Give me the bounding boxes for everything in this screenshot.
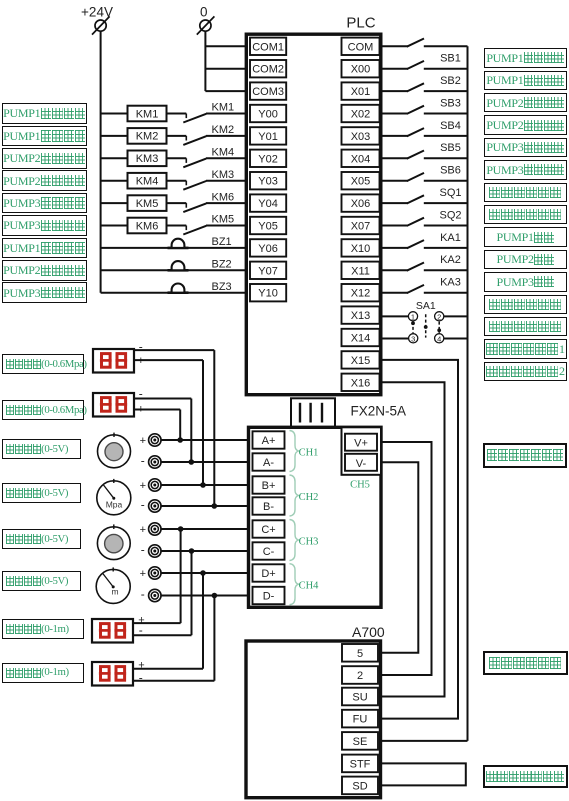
svg-text:0: 0 — [200, 5, 208, 20]
wire contact to bus — [424, 292, 468, 294]
FX2N terminal V- — [345, 454, 377, 471]
input contact row X02 — [407, 106, 424, 114]
junction C+ — [178, 526, 184, 532]
wire contact to bus — [424, 113, 468, 115]
svg-text:KM2: KM2 — [212, 124, 235, 136]
svg-text:Y04: Y04 — [258, 198, 278, 210]
svg-text:3: 3 — [411, 334, 415, 343]
contact label SB6 — [440, 165, 461, 177]
digital display pressure display 1 — [93, 349, 134, 373]
label 反馈压力(0-5V) — [2, 483, 81, 503]
svg-text:+: + — [140, 435, 146, 447]
svg-text:BZ3: BZ3 — [212, 281, 232, 293]
svg-text:+: + — [140, 568, 146, 580]
wire FX2N V+ to A700 terminal 2 — [381, 442, 432, 675]
PLC terminal X10 — [342, 239, 380, 256]
svg-text:BZ2: BZ2 — [212, 259, 232, 271]
svg-text:KM6: KM6 — [212, 191, 235, 203]
svg-text:V+: V+ — [354, 438, 368, 450]
terminal jack B- — [141, 498, 161, 513]
wire contact to PLC Y04 — [206, 202, 248, 204]
wire STF-SD start loop — [381, 763, 466, 785]
PLC terminal X13 — [342, 306, 380, 323]
svg-text:X04: X04 — [351, 153, 371, 165]
label 自动运行模式 — [484, 317, 568, 337]
SA1 pin 1 — [408, 312, 417, 322]
wire jack to FX2N B- — [161, 505, 248, 507]
PLC terminal COM1 — [250, 38, 286, 55]
label PUMP1工频运行 — [2, 103, 87, 124]
svg-text:A-: A- — [263, 457, 274, 469]
input contact row X07 — [407, 218, 424, 226]
wire coil KM3 to contact — [167, 158, 187, 163]
PLC terminal X02 — [342, 105, 380, 122]
svg-text:KA2: KA2 — [440, 254, 461, 266]
contact label SB5 — [440, 142, 461, 154]
svg-text:CH2: CH2 — [299, 492, 319, 503]
svg-text:SB1: SB1 — [440, 53, 461, 65]
FX2N terminal B- — [253, 497, 285, 514]
wire jack to FX2N D- — [161, 595, 248, 597]
input contact row X06 — [407, 195, 424, 203]
SA1 linkage middle — [424, 314, 428, 337]
svg-text:STF: STF — [350, 758, 371, 770]
input contact row X00 — [407, 61, 424, 69]
label 频率到达信号1 — [484, 339, 568, 359]
svg-text:X11: X11 — [351, 265, 370, 277]
svg-text:PLC: PLC — [346, 15, 375, 32]
label PUMP2故障 — [484, 250, 568, 270]
svg-text:CH3: CH3 — [299, 537, 319, 548]
junction A- — [189, 459, 195, 465]
A700 terminal SD — [342, 777, 378, 795]
PLC terminal Y05 — [250, 217, 286, 234]
terminal jack C- — [141, 543, 161, 558]
wire contact to bus — [424, 135, 468, 137]
wire jack to FX2N C- — [161, 550, 248, 552]
wire PLC X01 to contact — [381, 90, 408, 92]
svg-text:Y00: Y00 — [258, 109, 278, 121]
contact KM3 — [183, 169, 234, 190]
PLC terminal Y01 — [250, 127, 286, 144]
wire contact to bus — [424, 225, 468, 227]
contact label SQ1 — [439, 187, 461, 199]
wire contact to bus — [424, 247, 468, 249]
svg-text:X13: X13 — [351, 310, 371, 322]
svg-text:KM1: KM1 — [212, 102, 235, 114]
svg-text:X10: X10 — [351, 243, 371, 255]
svg-text:Y05: Y05 — [258, 221, 278, 233]
wire contact to PLC Y01 — [206, 135, 248, 137]
contact KM4 — [183, 147, 234, 168]
wire 0V to COM1 — [205, 45, 247, 47]
channel brace CH3 — [290, 520, 299, 561]
wire contact to PLC Y00 — [206, 113, 248, 115]
svg-text:-: - — [141, 543, 145, 557]
PLC terminal Y04 — [250, 194, 286, 211]
svg-text:SU: SU — [352, 692, 367, 704]
input contact row X12 — [407, 285, 424, 293]
svg-text:-: - — [141, 454, 145, 468]
wire 0V to COM3 — [205, 90, 247, 92]
wire +24V rail to PLC Y06 — [101, 247, 248, 249]
wire coil KM5 to contact — [167, 203, 187, 208]
contact label SQ2 — [439, 209, 461, 221]
A700 terminal SU — [342, 688, 378, 706]
wire PLC X03 to contact — [381, 135, 408, 137]
wire SA1 pin 4 to bus — [444, 338, 468, 340]
wire PLC X10 to contact — [381, 247, 408, 249]
PLC terminal Y02 — [250, 150, 286, 167]
wire FX2N V- to A700 terminal 5 — [381, 462, 419, 653]
A700 terminal FU — [342, 710, 378, 728]
svg-text:X07: X07 — [351, 221, 371, 233]
A700 terminal 2 — [342, 666, 378, 684]
wire contact to bus — [424, 202, 468, 204]
svg-text:BZ1: BZ1 — [212, 236, 232, 248]
wire contact to bus — [424, 90, 468, 92]
svg-text:Mpa: Mpa — [106, 500, 123, 510]
label 频率到达信号2 — [484, 362, 568, 382]
svg-text:SQ2: SQ2 — [439, 209, 461, 221]
contact label KA2 — [440, 254, 461, 266]
junction B+ — [200, 482, 206, 488]
SA1 pin 2 — [435, 312, 444, 322]
svg-text:Y03: Y03 — [258, 176, 278, 188]
A700 terminal 5 — [342, 644, 378, 662]
wire PLC X07 to contact — [381, 225, 408, 227]
wire +24V rail to coil KM3 — [101, 157, 128, 159]
label PUMP1故障报警 — [2, 238, 87, 259]
svg-text:5: 5 — [357, 648, 363, 660]
svg-text:CH5: CH5 — [350, 480, 370, 491]
label 手动运行模式 — [484, 295, 568, 315]
svg-text:C+: C+ — [261, 524, 275, 536]
channel label CH4 — [299, 581, 320, 592]
svg-text:SE: SE — [353, 736, 368, 748]
relay coil KM1 — [128, 106, 167, 122]
svg-text:SA1: SA1 — [416, 300, 436, 312]
FX2N terminal B+ — [253, 476, 285, 493]
contact KM6 — [183, 191, 234, 212]
svg-text:KM2: KM2 — [136, 131, 159, 143]
contact label SB3 — [440, 97, 461, 109]
PLC terminal X12 — [342, 284, 380, 301]
power terminal +24V — [92, 16, 110, 34]
SA1 linkage 1-3 — [411, 321, 415, 333]
svg-text:X00: X00 — [351, 64, 371, 76]
svg-text:FU: FU — [353, 714, 368, 726]
wire +24V rail to coil KM1 — [101, 113, 128, 115]
junction B- — [212, 503, 218, 509]
relay coil KM3 — [128, 151, 167, 167]
PLC terminal COM — [342, 38, 380, 55]
svg-text:D+: D+ — [261, 568, 275, 580]
PLC terminal X04 — [342, 150, 380, 167]
svg-text:KM3: KM3 — [212, 169, 235, 181]
pressure display 1 minus wire to B- — [134, 340, 214, 507]
terminal jack D- — [141, 587, 161, 602]
svg-text:Y01: Y01 — [258, 131, 278, 143]
svg-text:CH4: CH4 — [299, 581, 320, 592]
wire +24V rail to coil KM2 — [101, 135, 128, 137]
label PUMP3停止按钮 — [484, 160, 568, 180]
FX2N terminal A+ — [253, 431, 285, 448]
label PUMP3故障报警 — [2, 282, 87, 303]
svg-text:COM3: COM3 — [252, 86, 284, 98]
wire jack to FX2N C+ — [161, 528, 248, 530]
wire PLC X00 to contact — [381, 68, 408, 70]
label PUMP1启动按钮 — [484, 48, 568, 68]
svg-text:SB2: SB2 — [440, 75, 461, 87]
svg-text:D-: D- — [263, 591, 275, 603]
wire PLC X02 to contact — [381, 113, 408, 115]
svg-text:COM: COM — [348, 41, 374, 53]
wire coil KM1 to contact — [167, 114, 187, 119]
svg-text:X05: X05 — [351, 176, 371, 188]
PLC terminal X01 — [342, 82, 380, 99]
svg-text:+: + — [140, 480, 146, 492]
wire jack to FX2N B+ — [161, 484, 248, 486]
svg-text:B-: B- — [263, 501, 274, 513]
digital display pressure display 2 — [93, 393, 134, 417]
inverter A700 — [246, 624, 385, 798]
wire SA1 pin 2 to bus — [444, 315, 468, 317]
node +24V — [81, 5, 113, 20]
svg-text:X06: X06 — [351, 198, 371, 210]
contact KM2 — [183, 124, 234, 145]
contact label KA1 — [440, 232, 461, 244]
wire jack to FX2N A+ — [161, 439, 248, 441]
wire +24V rail to PLC Y07 — [101, 269, 248, 271]
FX2N terminal V+ — [345, 434, 377, 451]
channel label CH5 — [350, 480, 370, 491]
FX2N terminal C+ — [253, 520, 285, 537]
SA1 linkage 2-4 — [437, 322, 441, 334]
contact label SB2 — [440, 75, 461, 87]
svg-text:KM6: KM6 — [136, 220, 159, 232]
PLC terminal Y10 — [250, 284, 286, 301]
contact label SB4 — [440, 120, 461, 132]
input contact row X05 — [407, 173, 424, 181]
wire PLC X05 to contact — [381, 180, 408, 182]
label PUMP2停止按钮 — [484, 115, 568, 135]
svg-text:Y02: Y02 — [258, 153, 278, 165]
svg-text:X03: X03 — [351, 131, 371, 143]
channel brace CH4 — [290, 564, 299, 605]
label PUMP2故障报警 — [2, 260, 87, 281]
label PUMP3工频运行 — [2, 193, 87, 214]
PLC terminal X14 — [342, 329, 380, 346]
wire +24V rail to coil KM4 — [101, 180, 128, 182]
contact KM1 — [183, 102, 234, 123]
svg-text:KM3: KM3 — [136, 153, 159, 165]
power terminal 0 — [197, 16, 215, 34]
wire +24V rail to PLC Y10 — [101, 292, 248, 294]
svg-text:KM5: KM5 — [136, 198, 159, 210]
svg-text:CH1: CH1 — [299, 448, 319, 459]
contact KM5 — [183, 214, 234, 235]
contact label KA3 — [440, 277, 461, 289]
svg-text:KM4: KM4 — [212, 147, 235, 159]
svg-text:SD: SD — [352, 780, 367, 792]
wire jack to FX2N D+ — [161, 572, 248, 574]
wire bus to A700 SE — [381, 740, 468, 742]
channel label CH2 — [299, 492, 319, 503]
label 集水池高液位 — [484, 183, 568, 203]
wire contact to bus — [424, 157, 468, 159]
terminal jack A- — [141, 454, 161, 469]
PLC terminal X11 — [342, 262, 380, 279]
svg-text:X15: X15 — [351, 355, 371, 367]
PLC terminal X15 — [342, 351, 380, 368]
PLC terminal COM2 — [250, 60, 286, 77]
label 压力显示(0-0.6Mpa) — [2, 400, 84, 420]
wire 0V rail — [204, 31, 206, 91]
label PUMP3变频运行 — [2, 215, 87, 236]
wire contact to bus — [424, 269, 468, 271]
svg-text:C-: C- — [263, 546, 275, 558]
PLC terminal X03 — [342, 127, 380, 144]
svg-text:A700: A700 — [352, 624, 385, 640]
level display 1 minus wire to C- — [133, 551, 192, 637]
pressure display 2 plus wire to A+ — [134, 404, 180, 441]
svg-text:COM2: COM2 — [252, 64, 284, 76]
selector switch SA1 — [416, 300, 436, 312]
contact label SB1 — [440, 53, 461, 65]
svg-text:KM1: KM1 — [136, 108, 159, 120]
wire contact to PLC Y02 — [206, 157, 248, 159]
level display 2 minus wire to D- — [133, 596, 214, 685]
wire PLC X14 to SA1 pin 3 — [381, 338, 409, 340]
svg-text:4: 4 — [437, 334, 441, 343]
terminal jack B+ — [140, 479, 161, 492]
A700 terminal SE — [342, 732, 378, 750]
junction C- — [189, 548, 195, 554]
PLC main unit — [246, 15, 380, 395]
label 设定压力(0-5V) — [2, 439, 81, 459]
wire PLC X12 to contact — [381, 292, 408, 294]
wire contact to bus — [424, 45, 468, 47]
potentiometer set level — [97, 524, 130, 559]
input contact row X01 — [407, 83, 424, 91]
svg-text:2: 2 — [357, 670, 363, 682]
label PUMP3故障 — [484, 272, 568, 292]
digital display level display 1 — [92, 619, 133, 643]
label 液位显示(0-1m) — [2, 663, 84, 683]
wire +24V rail — [100, 31, 102, 293]
terminal jack A+ — [140, 434, 161, 447]
svg-text:SB3: SB3 — [440, 97, 461, 109]
input contact row X11 — [407, 263, 424, 271]
svg-text:KM4: KM4 — [136, 176, 159, 188]
node 0 — [200, 5, 208, 20]
channel label CH3 — [299, 537, 319, 548]
label PUMP2变频运行 — [2, 170, 87, 191]
wire contact to PLC Y05 — [206, 225, 248, 227]
input contact row X03 — [407, 128, 424, 136]
svg-text:-: - — [141, 587, 145, 601]
svg-text:V-: V- — [356, 458, 367, 470]
relay coil KM2 — [128, 128, 167, 144]
wire PLC X15 to A700 FU — [381, 360, 458, 719]
junction A+ — [177, 437, 183, 443]
label 液位显示(0-1m) — [2, 619, 84, 639]
PLC terminal X00 — [342, 60, 380, 77]
svg-text:m: m — [111, 587, 118, 597]
PLC terminal Y06 — [250, 239, 286, 256]
input contact row X10 — [407, 240, 424, 248]
wire +24V rail to coil KM6 — [101, 225, 128, 227]
channel brace CH2 — [290, 475, 299, 516]
channel brace CH1 — [290, 431, 299, 472]
label 变频器启动信号 — [483, 765, 569, 789]
input contact row COM — [407, 39, 424, 47]
pressure display 1 plus wire to B+ — [134, 355, 203, 485]
wire PLC X04 to contact — [381, 157, 408, 159]
extension bus connector — [291, 398, 335, 427]
wire PLC X13 to SA1 pin 1 — [381, 315, 408, 317]
label 模拟量输出信号 — [483, 443, 567, 468]
wire contact to bus — [424, 68, 468, 70]
wire input common bus — [467, 46, 469, 741]
svg-text:1: 1 — [411, 312, 415, 321]
svg-text:X16: X16 — [351, 377, 371, 389]
svg-text:SB4: SB4 — [440, 120, 461, 132]
junction D- — [212, 593, 218, 599]
svg-text:Y07: Y07 — [258, 265, 278, 277]
SA1 pin 3 — [409, 334, 418, 344]
svg-text:B+: B+ — [262, 480, 276, 492]
terminal jack D+ — [140, 567, 161, 580]
svg-text:COM1: COM1 — [252, 41, 284, 53]
label PUMP1变频运行 — [2, 126, 87, 147]
svg-text:KM5: KM5 — [212, 214, 235, 226]
svg-text:X02: X02 — [351, 109, 371, 121]
relay coil KM5 — [128, 195, 167, 211]
svg-text:X14: X14 — [351, 333, 371, 345]
PLC terminal Y00 — [250, 105, 286, 122]
label PUMP3启动按钮 — [484, 138, 568, 158]
wire coil KM4 to contact — [167, 181, 187, 186]
PLC terminal Y07 — [250, 262, 286, 279]
svg-text:A+: A+ — [262, 435, 276, 447]
svg-text:Y06: Y06 — [258, 243, 278, 255]
input contact row X04 — [407, 151, 424, 159]
svg-text:SB5: SB5 — [440, 142, 461, 154]
wire PLC X16 to A700 SU — [381, 382, 445, 696]
wire PLC COM to contact — [381, 45, 408, 47]
label 压力显示(0-0.6Mpa) — [2, 354, 84, 374]
wire 0V to COM2 — [205, 68, 247, 70]
label PUMP2工频运行 — [2, 148, 87, 169]
wire coil KM6 to contact — [167, 226, 187, 231]
buzzer BZ1 — [168, 236, 232, 248]
PLC terminal X16 — [342, 374, 380, 391]
wire +24V rail to coil KM5 — [101, 202, 128, 204]
svg-text:KA1: KA1 — [440, 232, 461, 244]
relay coil KM6 — [128, 218, 167, 234]
level display 2 plus wire to D+ — [133, 573, 203, 672]
gauge feedback level m — [96, 567, 130, 603]
wire coil KM2 to contact — [167, 136, 187, 141]
svg-text:-: - — [139, 340, 143, 354]
wire contact to bus — [424, 180, 468, 182]
svg-text:Y10: Y10 — [258, 288, 278, 300]
label 频率调节信号 — [483, 651, 568, 676]
wire PLC X11 to contact — [381, 269, 408, 271]
wire jack to FX2N A- — [161, 461, 248, 463]
